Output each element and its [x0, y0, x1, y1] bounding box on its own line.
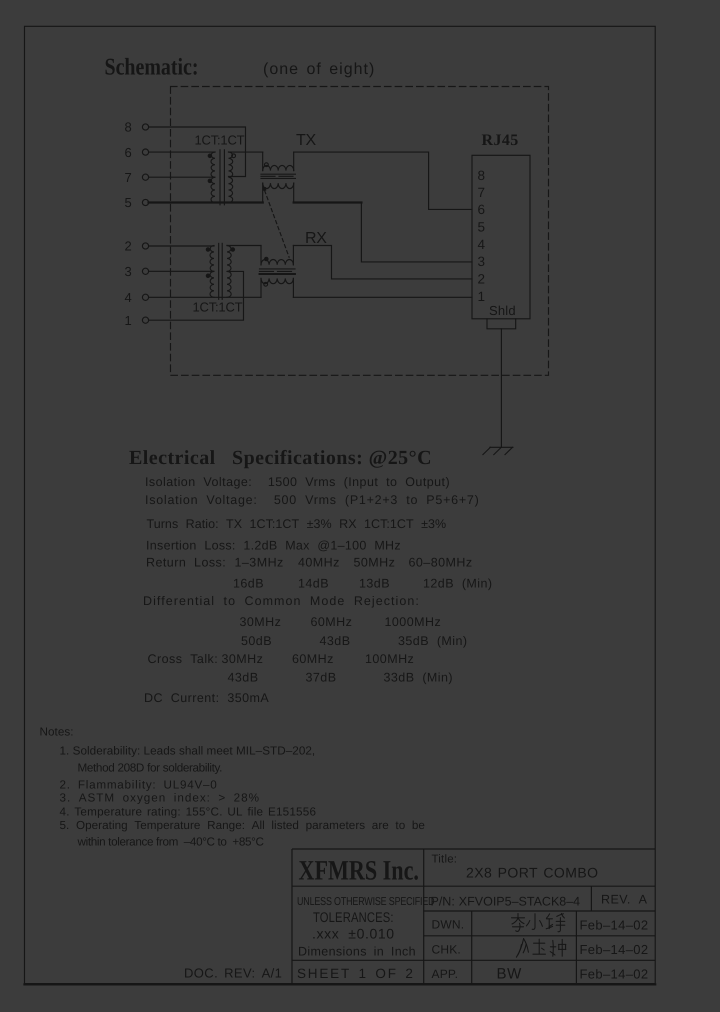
svg-text:50MHz: 50MHz: [354, 556, 396, 570]
svg-text:43dB: 43dB: [320, 634, 351, 648]
svg-text:2. Flammability: UL94V–0: 2. Flammability: UL94V–0: [60, 779, 218, 792]
svg-text:APP.: APP.: [432, 967, 459, 981]
svg-text:40MHz: 40MHz: [298, 556, 340, 570]
transformer T2 1CT:1CT: [206, 243, 234, 299]
svg-text:6: 6: [478, 202, 486, 217]
svg-text:6: 6: [125, 145, 132, 160]
wire pin3 to T2 primary center tap: [149, 270, 214, 272]
note 1: [60, 745, 316, 758]
svg-text:8: 8: [125, 120, 132, 135]
pin 4 lead circle: [142, 294, 148, 300]
signature APP BW: [497, 965, 523, 982]
company name XFMRS Inc.: [299, 856, 419, 887]
svg-text:Feb–14–02: Feb–14–02: [580, 967, 649, 982]
pin number 6: [125, 145, 132, 160]
title block P/N - REV divider: [590, 886, 592, 911]
title block outer border: [292, 849, 655, 984]
svg-text:1CT:1CT: 1CT:1CT: [193, 300, 243, 315]
svg-text:30MHz: 30MHz: [222, 652, 264, 666]
text REV. A: [601, 893, 648, 907]
svg-text:DOC. REV: A/1: DOC. REV: A/1: [184, 966, 282, 981]
text tolerances: [313, 909, 394, 925]
text CHK.: [432, 943, 461, 957]
svg-text:Method 208D for solderability.: Method 208D for solderability.: [78, 762, 223, 775]
svg-text:Cross Talk:: Cross Talk:: [148, 652, 219, 666]
svg-text:43dB: 43dB: [228, 671, 259, 685]
svg-text:BW: BW: [497, 965, 523, 982]
svg-text:SHEET 1 OF 2: SHEET 1 OF 2: [297, 966, 415, 981]
spec line cross talk freqs: [148, 652, 415, 666]
svg-text:4: 4: [125, 290, 132, 305]
svg-text:3. ASTM oxygen index: > 28%: 3. ASTM oxygen index: > 28%: [60, 792, 261, 805]
note 3: [60, 792, 261, 805]
text doc rev: [184, 966, 282, 981]
spec line return loss headers: [146, 556, 473, 570]
svg-text:Turns Ratio: TX 1CT:1CT ±3% RX: Turns Ratio: TX 1CT:1CT ±3% RX 1CT:1CT ±…: [147, 517, 447, 531]
common-mode choke TX: [261, 152, 295, 202]
svg-text:60MHz: 60MHz: [292, 652, 334, 666]
pin 6 lead circle: [142, 149, 148, 155]
svg-text:14dB: 14dB: [298, 577, 329, 591]
wire T2 secondary top to RX choke top-left: [227, 245, 261, 247]
svg-text:1CT:1CT: 1CT:1CT: [195, 133, 245, 148]
svg-text:1000MHz: 1000MHz: [385, 615, 442, 629]
svg-text:50dB: 50dB: [241, 634, 272, 648]
svg-text:Shld: Shld: [489, 303, 516, 318]
date DWN: [580, 918, 649, 933]
text Title:: [432, 854, 458, 866]
label Shld: [489, 303, 516, 318]
svg-text:16dB: 16dB: [233, 577, 264, 591]
signature DWN chinese: [512, 913, 565, 931]
pin number 8: [125, 120, 132, 135]
spec line cross talk values: [228, 671, 454, 685]
RJ45 pin number 6: [478, 202, 486, 217]
RJ45 pin number 5: [478, 220, 486, 235]
svg-text:Feb–14–02: Feb–14–02: [580, 942, 649, 957]
title block row line under CHK / tolerances: [292, 959, 655, 961]
svg-text:7: 7: [478, 185, 486, 200]
title block label column divider: [471, 911, 473, 984]
title block row line under XFMRS / Title: [292, 885, 655, 887]
svg-text:7: 7: [125, 170, 132, 185]
spec line isolation voltage 2: [145, 493, 480, 507]
text dimensions in inch: [298, 945, 416, 959]
pin 5 lead circle: [142, 199, 148, 205]
pin number 4: [125, 290, 132, 305]
svg-text:4. Temperature rating: 155°C.: 4. Temperature rating: 155°C. UL file E1…: [60, 806, 317, 819]
label T1 ratio 1CT:1CT: [195, 133, 245, 148]
svg-text:5: 5: [478, 220, 486, 235]
spec line isolation voltage 1: [145, 475, 450, 489]
wire T1 secondary top to TX choke top-left: [229, 151, 263, 153]
text P/N: [431, 895, 581, 909]
svg-text:UNLESS OTHERWISE SPECIFIED: UNLESS OTHERWISE SPECIFIED: [297, 896, 434, 908]
heading (one of eight): [263, 61, 375, 78]
title block row line under P/N: [424, 910, 656, 912]
RJ45 pin number 8: [478, 168, 486, 183]
svg-text:within tolerance from –40°C t: within tolerance from –40°C to +85°C: [77, 836, 264, 849]
pin number 2: [125, 239, 132, 254]
text unless otherwise specified: [297, 896, 434, 908]
notes heading: [40, 726, 74, 739]
dashed phasing line TX dot to RX winding: [265, 191, 290, 258]
label TX: [296, 132, 316, 149]
svg-text:Return Loss:: Return Loss:: [146, 556, 226, 570]
svg-text:.xxx ±0.010: .xxx ±0.010: [312, 926, 395, 942]
note 4: [60, 806, 317, 819]
spec line rejection values: [241, 634, 468, 648]
heading Electrical Specifications: [129, 447, 432, 469]
pin 8 lead circle: [142, 124, 148, 130]
svg-text:100MHz: 100MHz: [365, 652, 414, 666]
svg-text:Insertion Loss: 1.2dB Max @1–1: Insertion Loss: 1.2dB Max @1–100 MHz: [146, 539, 401, 553]
svg-text:2: 2: [478, 272, 486, 287]
RJ45 pin number 1: [478, 289, 486, 304]
chassis ground symbol: [483, 447, 513, 454]
pin number 5: [125, 195, 132, 210]
spec line differential rejection: [143, 594, 420, 608]
svg-text:RX: RX: [305, 230, 327, 247]
svg-text:8: 8: [478, 168, 486, 183]
wire shield to chassis ground: [500, 329, 502, 448]
wire RX choke top-right to RJ45 pin2: [293, 246, 472, 279]
svg-text:RJ45: RJ45: [482, 132, 519, 149]
pin number 3: [125, 264, 132, 279]
wire pin7 to T1 primary center tap: [149, 176, 215, 178]
svg-text:60MHz: 60MHz: [311, 615, 353, 629]
pin number 7: [125, 170, 132, 185]
svg-text:(one of eight): (one of eight): [263, 61, 375, 78]
svg-text:2: 2: [125, 239, 132, 254]
label RJ45: [482, 132, 519, 149]
svg-text:13dB: 13dB: [359, 577, 390, 591]
title block row line under DWN: [424, 935, 656, 937]
wire pin5 to TX choke bottom (thick net): [149, 201, 263, 203]
svg-text:Schematic:: Schematic:: [105, 55, 199, 81]
svg-text:33dB (Min): 33dB (Min): [384, 671, 454, 685]
wire pin6 to T1 primary top: [149, 151, 215, 153]
svg-text:TX: TX: [296, 132, 316, 149]
svg-text:5. Operating Temperature Range: 5. Operating Temperature Range: All list…: [60, 819, 425, 832]
svg-text:Title:: Title:: [432, 854, 458, 866]
note 1 line 2: [78, 762, 223, 775]
svg-text:5: 5: [125, 195, 132, 210]
svg-text:Electrical Specifications: @: Electrical Specifications: @25°C: [129, 447, 432, 469]
pin number 1: [125, 313, 132, 328]
label RX: [305, 230, 327, 247]
svg-text:2X8 PORT COMBO: 2X8 PORT COMBO: [466, 865, 599, 881]
spec line turns ratio: [147, 517, 447, 531]
wire pin8 to T1 secondary center tap: [149, 127, 246, 177]
connector J1 RJ45 body: [472, 155, 530, 318]
svg-text:1: 1: [478, 289, 486, 304]
svg-text:DC Current: 350mA: DC Current: 350mA: [144, 691, 269, 705]
svg-text:1–3MHz: 1–3MHz: [235, 556, 284, 570]
text 2X8 PORT COMBO: [466, 865, 599, 881]
transformer T1 1CT:1CT: [208, 150, 235, 205]
date CHK: [580, 942, 649, 957]
note 5: [60, 819, 425, 832]
svg-text:CHK.: CHK.: [432, 943, 461, 957]
heading Schematic:: [105, 55, 199, 81]
pin 7 lead circle: [142, 174, 148, 180]
svg-text:3: 3: [125, 264, 132, 279]
svg-text:35dB (Min): 35dB (Min): [398, 634, 468, 648]
svg-text:Isolation Voltage: 1500 Vrms: Isolation Voltage: 1500 Vrms (Input to O…: [145, 475, 450, 489]
svg-text:1: 1: [125, 313, 132, 328]
wire pin4 through T2 bottom to RX choke bottom and RJ45 pin1: [149, 296, 472, 298]
wire pin1 to T2 secondary center tap: [149, 271, 244, 320]
RJ45 pin number 2: [478, 272, 486, 287]
common-mode choke RX: [260, 246, 296, 298]
label T2 ratio 1CT:1CT: [193, 300, 243, 315]
spec line dc current: [144, 691, 269, 705]
RJ45 shield tab: [487, 319, 516, 329]
svg-text:4: 4: [478, 237, 486, 252]
wire TX choke top-right to RJ45 pin6: [294, 152, 472, 209]
svg-text:P/N: XFVOIP5–STACK8–4: P/N: XFVOIP5–STACK8–4: [431, 895, 581, 909]
svg-text:TOLERANCES:: TOLERANCES:: [313, 909, 394, 925]
RJ45 pin number 3: [478, 254, 486, 269]
svg-text:1. Solderability: Leads shall: 1. Solderability: Leads shall meet MIL–S…: [60, 745, 316, 758]
text sheet 1 of 2: [297, 966, 415, 981]
text APP.: [432, 967, 459, 981]
svg-text:Dimensions in Inch: Dimensions in Inch: [298, 945, 416, 959]
text .xxx tolerance: [312, 926, 395, 942]
svg-text:60–80MHz: 60–80MHz: [409, 556, 473, 570]
svg-text:30MHz: 30MHz: [240, 615, 282, 629]
svg-text:3: 3: [478, 254, 486, 269]
dashed schematic enclosure: [171, 87, 549, 376]
spec line insertion loss: [146, 539, 401, 553]
svg-text:XFMRS Inc.: XFMRS Inc.: [299, 856, 419, 887]
RJ45 pin number 4: [478, 237, 486, 252]
svg-text:12dB (Min): 12dB (Min): [423, 577, 493, 591]
svg-text:Feb–14–02: Feb–14–02: [580, 918, 649, 933]
date APP: [580, 967, 649, 982]
pin 1 lead circle: [142, 317, 148, 323]
svg-text:Notes:: Notes:: [40, 726, 74, 739]
RJ45 pin number 7: [478, 185, 486, 200]
title block column divider: [423, 849, 425, 984]
note 5 line 2: [77, 836, 264, 849]
pin 3 lead circle: [142, 268, 148, 274]
svg-text:REV. A: REV. A: [601, 893, 648, 907]
spec line rejection freqs: [240, 615, 442, 629]
svg-text:37dB: 37dB: [306, 671, 337, 685]
spec line return loss values: [233, 577, 493, 591]
title block date column divider: [575, 911, 577, 984]
svg-text:DWN.: DWN.: [432, 918, 465, 932]
svg-text:Differential to Common Mode Re: Differential to Common Mode Rejection:: [143, 594, 420, 608]
pin 2 lead circle: [142, 243, 148, 249]
signature CHK chinese: [516, 939, 565, 958]
wire TX choke bottom-right to RJ45 pin3: [294, 203, 472, 262]
note 2: [60, 779, 218, 792]
svg-text:Isolation Voltage: 500 Vrms (: Isolation Voltage: 500 Vrms (P1+2+3 to P…: [145, 493, 480, 507]
wire pin2 to T2 primary top: [149, 245, 214, 247]
text DWN.: [432, 918, 465, 932]
